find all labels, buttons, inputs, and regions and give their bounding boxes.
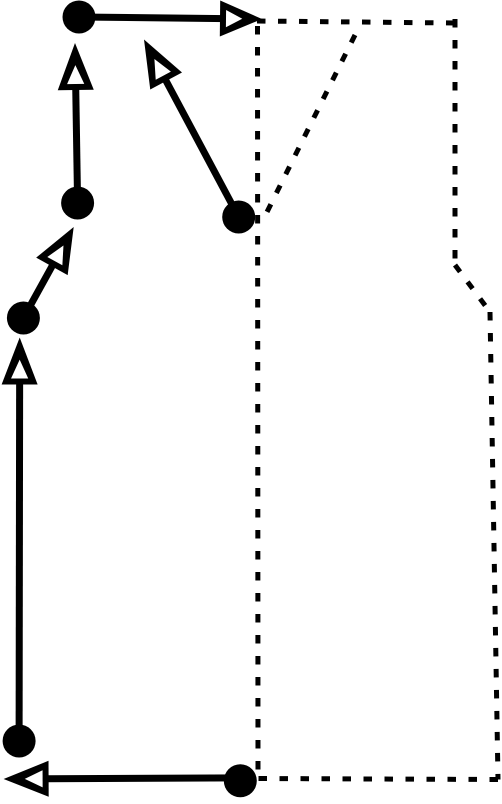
- node 6: [224, 764, 257, 797]
- node 5: [3, 725, 36, 758]
- interior dart line: [263, 35, 355, 220]
- outline right upper edge: [453, 19, 458, 265]
- node 3: [222, 201, 255, 234]
- node 1: [63, 1, 96, 34]
- edge node2 to node1: [57, 43, 94, 203]
- outline left edge: [255, 26, 261, 772]
- edge node4 to node2: [23, 218, 89, 318]
- edge node5 to node4: [2, 337, 38, 741]
- outline bottom edge: [257, 779, 498, 780]
- outline right lower edge: [490, 312, 498, 780]
- outline right notch diagonal: [455, 265, 490, 312]
- edge node1 to outline corner: [79, 1, 262, 37]
- edge node3 to node1 direction: [128, 31, 239, 217]
- node 2: [61, 187, 94, 220]
- edge node6 to node5: [4, 761, 241, 797]
- outline top edge: [257, 21, 455, 23]
- node 4: [7, 302, 40, 335]
